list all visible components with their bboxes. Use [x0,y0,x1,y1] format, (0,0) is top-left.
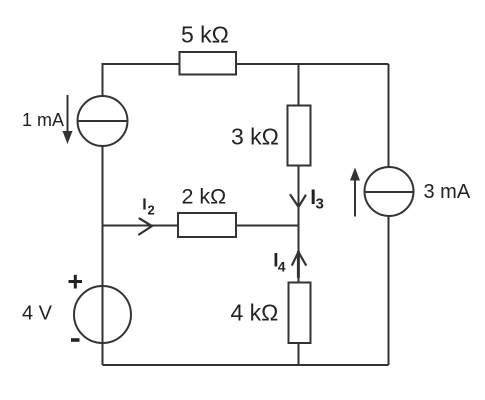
label I4 [273,251,286,275]
svg-text:4: 4 [278,258,286,274]
wire middle horizontal (node B to node C) [103,225,299,227]
label I3 [310,186,324,213]
svg-text:5 kΩ: 5 kΩ [181,22,229,48]
arrow 1mA direction (down) [63,95,73,144]
arrow current I4 (up) [292,252,306,277]
svg-text:2: 2 [148,203,155,218]
svg-text:4 kΩ: 4 kΩ [231,300,279,326]
arrow 3mA direction (up) [350,168,360,217]
svg-text:4 V: 4 V [22,302,53,324]
resistor R=3k (middle branch upper) [288,106,311,166]
arrow current I3 (down) [291,195,306,207]
wire bottom rail [103,364,389,366]
svg-text:2 kΩ: 2 kΩ [182,185,227,209]
current source I1 1mA (circle with bar) [78,96,128,146]
plus sign of 4V source [69,275,83,289]
resistor R=5k (top) [180,52,237,75]
svg-text:3 kΩ: 3 kΩ [231,124,279,150]
wire middle vertical branch (top node through 3k, node C, 4k to bottom) [298,64,300,365]
svg-text:3: 3 [316,196,324,213]
arrow current I2 (right) [139,219,152,235]
svg-text:1 mA: 1 mA [22,110,64,130]
wire right branch lower (3mA source to bottom corner) [388,215,390,365]
svg-text:I: I [142,196,146,213]
wire left branch upper (node A to 1mA source) [102,63,104,97]
minus sign of 4V source [71,338,80,342]
label I2 [142,196,155,217]
svg-text:3 mA: 3 mA [424,181,471,203]
wire left branch lower (1mA source through 4V source to bottom) [102,146,104,366]
wire right branch upper (top corner to 3mA source) [388,64,390,168]
current source I=3mA (circle with bar) [365,167,414,216]
wire top: left corner to right corner [103,63,389,65]
resistor R=2k (middle horizontal) [178,213,236,237]
voltage source V=4V (circle) [74,286,131,343]
resistor R=4k (middle branch lower) [289,283,311,344]
